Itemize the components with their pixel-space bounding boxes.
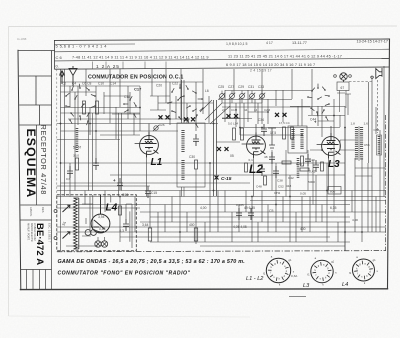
band switch S1 contacts	[65, 84, 96, 125]
svg-text:13-24-15 14-27-17: 13-24-15 14-27-17	[357, 40, 388, 44]
speaker field coil	[377, 135, 382, 155]
coupling capacitor C40	[261, 124, 267, 136]
IF transformer T2 can	[288, 126, 307, 153]
svg-text:0,3A: 0,3A	[291, 274, 298, 278]
svg-text:L3: L3	[303, 283, 310, 289]
terminal strip row 2 numbers	[56, 54, 343, 60]
svg-text:1 2 A 25: 1 2 A 25	[96, 64, 120, 70]
page edge left	[8, 27, 10, 317]
svg-text:C15: C15	[151, 191, 157, 195]
resistor R23	[194, 228, 197, 241]
capacitor label row C2-C14	[62, 82, 116, 86]
svg-text:C18: C18	[124, 95, 130, 99]
drawing frame border	[18, 39, 390, 290]
svg-text:C 6: C 6	[56, 55, 63, 60]
svg-text:GAMA DE ONDAS - 16,5 a 20,75: GAMA DE ONDAS - 16,5 a 20,75 ; 20,5 a 33…	[58, 259, 246, 265]
trimmer C26 near L1	[154, 126, 158, 130]
svg-text:C30: C30	[189, 155, 195, 159]
tube L2 grid cap lead	[255, 124, 257, 132]
svg-text:C2: C2	[62, 82, 66, 86]
capacitor C41	[305, 154, 311, 166]
svg-text:C52: C52	[278, 185, 284, 189]
tube L1 cathode lead	[146, 157, 148, 197]
capacitor C39	[269, 152, 275, 164]
title block cell grid (top-left)	[19, 51, 52, 126]
svg-text:418: 418	[286, 184, 291, 188]
L4 box internal wires	[66, 195, 132, 248]
capacitor C36	[259, 164, 265, 176]
band switch S2 contacts	[167, 84, 204, 128]
svg-text:4,00: 4,00	[352, 218, 358, 222]
svg-text:L3: L3	[328, 159, 340, 170]
resistor R1	[75, 158, 78, 170]
capacitor C35	[273, 166, 279, 178]
svg-text:50 57: 50 57	[73, 146, 81, 150]
svg-text:C33: C33	[258, 85, 264, 89]
svg-text:3,94: 3,94	[98, 215, 105, 219]
terminal number strip rules	[55, 44, 390, 69]
resistor R11	[245, 163, 248, 172]
wire: trimmer lower bus	[222, 102, 262, 104]
svg-text:+: +	[113, 178, 116, 183]
terminal strip row 3 ticks	[93, 62, 167, 69]
capacitor C37	[313, 160, 319, 172]
IF T2 windings	[291, 129, 294, 150]
svg-text:49 6,35: 49 6,35	[244, 206, 255, 210]
title block small print rows (mid)	[29, 207, 45, 217]
svg-text:4 17: 4 17	[266, 41, 273, 45]
tube L3 grid cap lead	[330, 126, 332, 133]
chassis dash-dot boundary (vertical)	[385, 115, 387, 251]
svg-text:48: 48	[264, 155, 268, 159]
chassis dash-dot boundary	[57, 251, 386, 252]
svg-text:C40: C40	[309, 158, 315, 162]
grid capacitor C19 (+)	[117, 178, 123, 190]
svg-text:13-11-77: 13-11-77	[292, 41, 307, 45]
svg-text:RADIO ELECTR.: RADIO ELECTR.	[30, 223, 33, 242]
svg-text:C58: C58	[374, 128, 380, 132]
pilot lamp P2	[101, 241, 107, 247]
svg-text:0,05: 0,05	[300, 192, 306, 196]
svg-text:0,42: 0,42	[309, 170, 316, 174]
electrolytic C65	[236, 208, 242, 220]
resistor R17	[119, 206, 122, 215]
svg-text:5,0 L14: 5,0 L14	[228, 122, 238, 126]
switch position X marks (IF pair)	[217, 147, 229, 151]
resistor R12	[291, 127, 294, 139]
svg-text:C27: C27	[228, 85, 234, 89]
switch position X marks (pair at C34)	[227, 114, 239, 118]
svg-text:C5: C5	[269, 209, 274, 213]
IF T1 tuning capacitor	[193, 134, 199, 146]
svg-text:7-48 11 41 12 41 14 9 11 11 4: 7-48 11 41 12 41 14 9 11 11 4 11 9 11 16…	[72, 56, 209, 60]
terminal strip row 1 numbers	[56, 40, 389, 49]
IF T1 secondary winding	[181, 160, 184, 180]
mains dropper box	[328, 187, 341, 195]
svg-text:L1 - L2: L1 - L2	[246, 276, 264, 282]
svg-text:C34: C34	[258, 118, 264, 122]
svg-text:L6: L6	[205, 89, 209, 93]
output transformer T3	[357, 126, 362, 161]
wire: middle horizontal buses	[57, 163, 386, 246]
dial lamp Q	[340, 73, 347, 82]
wire: upper vertical drops	[61, 66, 385, 251]
pilot lamp pair upper	[85, 230, 91, 236]
choke winding CH2	[297, 158, 300, 179]
resistor R15 horizontal	[300, 168, 309, 171]
terminal strip row 3 numbers	[56, 63, 316, 73]
L4 main winding zigzag	[74, 198, 79, 249]
svg-text:C1M: C1M	[231, 108, 238, 112]
svg-text:1,9 8,9 10,1 5: 1,9 8,9 10,1 5	[226, 42, 247, 46]
scale bar	[289, 296, 306, 298]
tube L2 cathode lead	[253, 158, 255, 197]
svg-text:0,1: 0,1	[249, 158, 254, 162]
svg-text:RECEPTOR 47/48: RECEPTOR 47/48	[39, 125, 48, 196]
title block ESQUEMA box	[20, 125, 51, 270]
pilot lamp P1	[95, 241, 101, 247]
svg-text:24: 24	[222, 108, 226, 112]
capacitor C12	[93, 158, 99, 170]
resistor R4	[96, 101, 99, 114]
svg-text:C25: C25	[218, 85, 224, 89]
svg-text:C42: C42	[288, 176, 294, 180]
svg-text:L1: L1	[151, 157, 163, 168]
resistor R5 lead	[195, 169, 197, 197]
mid terminal labels	[222, 108, 271, 112]
resistor R10	[283, 127, 286, 139]
resistor R2	[83, 101, 86, 114]
svg-text:C-15: C-15	[221, 176, 232, 182]
svg-text:C17: C17	[134, 87, 142, 92]
resistor R13	[321, 162, 324, 171]
switch arrow b	[63, 232, 70, 239]
svg-text:C22: C22	[172, 82, 178, 86]
resistor R5	[195, 160, 198, 169]
svg-text:33,0: 33,0	[73, 154, 79, 158]
svg-text:400: 400	[300, 227, 306, 231]
svg-text:L4: L4	[342, 282, 348, 288]
svg-text:67: 67	[341, 86, 345, 90]
wire: upper horizontal buses	[57, 82, 351, 150]
svg-text:800: 800	[330, 189, 335, 193]
lamp terminal box	[337, 82, 349, 91]
title block small print column	[27, 223, 52, 243]
svg-text:g1: g1	[289, 258, 292, 262]
switch position X marks (left pair)	[159, 115, 170, 119]
capacitor C15	[145, 186, 151, 198]
trimmer capacitor row C25-C33	[219, 91, 265, 104]
svg-text:MANUF. PORT.: MANUF. PORT.	[27, 223, 30, 241]
svg-text:6 9.0 17 18 14 15 6 14 10: 6 9.0 17 18 14 15 6 14 10 20 34 5 16 7 1…	[226, 63, 315, 67]
L4 tuning eye circle	[91, 195, 110, 233]
svg-text:44: 44	[244, 108, 248, 112]
tube L3 (output)	[317, 133, 341, 159]
svg-text:4,05 4,05: 4,05 4,05	[233, 225, 247, 229]
svg-text:CONMUTADOR EN POSICION O.C.: CONMUTADOR EN POSICION O.C.1	[88, 75, 184, 81]
svg-text:3,64: 3,64	[142, 223, 149, 227]
coil L7 winding	[76, 128, 79, 152]
svg-text:APROV.: APROV.	[29, 207, 33, 217]
svg-text:4x-1098: 4x-1098	[17, 37, 27, 41]
svg-text:C48: C48	[256, 185, 262, 189]
wire: detector column drops	[272, 150, 313, 205]
svg-text:C26: C26	[159, 123, 165, 127]
resistor R21	[148, 228, 151, 241]
L4 padder capacitor	[123, 219, 129, 231]
svg-text:C10: C10	[98, 82, 104, 86]
svg-text:5000: 5000	[308, 180, 315, 184]
L4 switch contact circle a	[54, 210, 57, 213]
svg-text:C6 C8: C6 C8	[82, 82, 92, 86]
svg-text:R13: R13	[296, 162, 302, 166]
detector diode cluster	[268, 128, 276, 148]
L4 oscillator coil box	[57, 195, 137, 251]
tube socket L1-L2	[266, 258, 290, 282]
svg-text:400: 400	[189, 223, 195, 227]
IF transformer T1 can	[177, 123, 205, 187]
switch position X marks (right pair)	[275, 113, 287, 117]
svg-text:C20: C20	[156, 84, 162, 88]
capacitor C11	[67, 166, 73, 178]
svg-text:17,5 C4: 17,5 C4	[279, 121, 290, 125]
trimmer labels	[218, 85, 264, 89]
title block signature cells	[21, 270, 52, 290]
svg-text:2 4 15 19 17: 2 4 15 19 17	[250, 69, 272, 73]
wire: trimmer diagonal feeds	[200, 100, 230, 124]
wire: lower vertical drops	[70, 127, 384, 251]
svg-text:11 23 11 25 41 25 45 21 14 6 1: 11 23 11 25 41 25 45 21 14 6 17 41 44 41…	[228, 54, 342, 58]
svg-text:C14: C14	[110, 82, 116, 86]
wire: left margin dashed guide	[56, 69, 58, 196]
svg-text:1,6: 1,6	[364, 122, 369, 126]
wire: IF can feed pair	[182, 187, 185, 197]
aerial earth symbol	[60, 71, 65, 85]
resistor R16	[264, 176, 267, 185]
svg-text:C31: C31	[248, 85, 254, 89]
svg-text:C56: C56	[364, 143, 370, 147]
wire: lamp box drops	[340, 91, 347, 113]
L4 switch contact circle b	[54, 237, 57, 240]
svg-text:LISBOA N.1042: LISBOA N.1042	[33, 223, 36, 241]
lamp terminal circle right	[349, 75, 352, 78]
svg-text:CH2: CH2	[274, 191, 280, 195]
loudspeaker icon (top right)	[371, 68, 382, 79]
svg-text:ESQUEMA: ESQUEMA	[24, 129, 38, 199]
svg-text:1,8: 1,8	[351, 122, 356, 126]
resistor R7	[233, 128, 236, 140]
svg-text:C29: C29	[238, 85, 244, 89]
tube L3 cathode lead	[328, 158, 330, 191]
svg-text:g1: g1	[331, 260, 334, 264]
svg-text:6,35: 6,35	[330, 206, 337, 210]
wafer 1b contacts	[123, 96, 137, 118]
tube socket L4	[353, 259, 375, 281]
IF T1 primary winding	[181, 130, 184, 152]
wire: gang capacitor link	[214, 100, 217, 196]
electrolytic C55	[248, 208, 254, 220]
tube L2 (IF amp)	[242, 132, 266, 158]
svg-text:C4: C4	[72, 82, 76, 86]
resistor R19 horizontal	[282, 161, 291, 164]
svg-text:ESC. 1:1 DES. 7: ESC. 1:1 DES. 7	[48, 223, 52, 243]
switch position X marks (mid pair)	[184, 117, 195, 121]
tube L1 (mixer)	[135, 132, 159, 158]
svg-text:6,3: 6,3	[120, 229, 125, 233]
X mark at C15	[215, 176, 219, 180]
svg-text:05: 05	[230, 154, 234, 158]
junction node markers	[60, 107, 363, 233]
svg-text:C38: C38	[277, 179, 283, 183]
svg-text:4,00: 4,00	[200, 206, 207, 210]
page edge bottom	[9, 316, 251, 317]
wire: speaker feed (dashed)	[349, 81, 373, 83]
tube socket L3	[311, 260, 333, 282]
wire: L3 plate to T3	[340, 140, 356, 150]
switch arrow a	[63, 205, 70, 212]
antenna A1	[69, 66, 77, 86]
svg-text:0,035: 0,035	[236, 203, 244, 207]
tube L1 grid cap lead	[148, 124, 150, 132]
band switch S3 contacts	[307, 84, 330, 121]
svg-text:0.: 0.	[56, 64, 59, 69]
svg-text:L4: L4	[106, 203, 118, 214]
svg-text:17,5: 17,5	[270, 131, 276, 135]
svg-text:DES.: DES.	[41, 207, 45, 213]
svg-text:14: 14	[254, 108, 258, 112]
lamp terminal circle left	[334, 75, 337, 78]
svg-text:CONMUTATOR "FONO" EN POSICI: CONMUTATOR "FONO" EN POSICION "RADIO"	[58, 271, 191, 277]
page edge top	[9, 25, 398, 28]
svg-text:g1: g1	[373, 258, 376, 262]
resistor R14	[301, 156, 304, 166]
svg-text:5 5,6 8 1 - 0 7 9 4 2 1 4: 5 5,6 8 1 - 0 7 9 4 2 1 4	[56, 44, 108, 49]
resistor R9	[241, 128, 244, 140]
